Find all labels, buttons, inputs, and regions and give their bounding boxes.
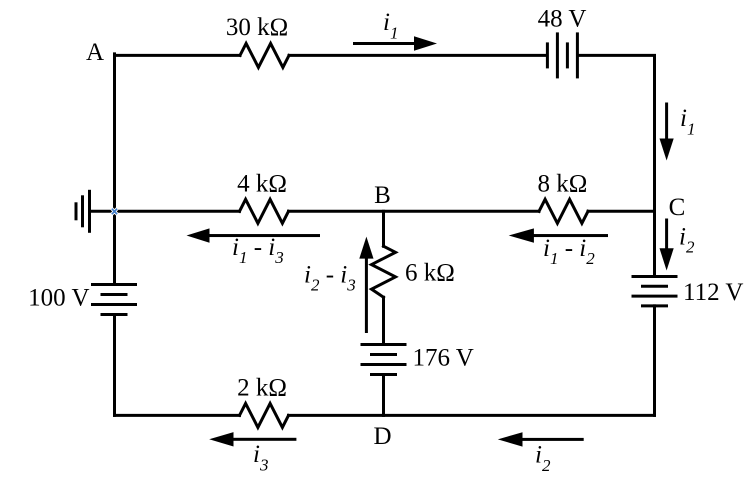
svg-text:48 V: 48 V [538,6,587,33]
svg-text:176 V: 176 V [413,345,474,372]
battery 48V plate tall right [576,34,579,77]
wire: right side from C down to 112V battery [653,211,656,274]
wire: top from 30k to 48V battery [289,54,546,57]
svg-text:i1: i1 [680,105,695,139]
svg-text:8 kΩ: 8 kΩ [537,171,587,198]
svg-text:30 kΩ: 30 kΩ [226,14,288,41]
wire: right side from 112V battery to bottom-right corner [653,306,656,416]
svg-text:i3: i3 [253,441,268,475]
wire: bottom from left corner to 2k resistor [115,414,240,417]
battery 176V wide plate 1 [362,343,405,346]
ground stub wire [90,210,115,213]
wire: top from A to 30k resistor [115,54,241,57]
svg-text:i2 - i3: i2 - i3 [304,261,356,294]
wire: branch from 176V battery to node D [382,375,385,416]
svg-text:D: D [373,423,391,450]
wire: top from 48V battery to top-right corner and down to node C [579,55,655,275]
battery 112V wide plate 1 [633,275,676,278]
battery 112V short plate 2 [643,285,667,288]
battery 48V plate short left [546,44,549,67]
resistor R 6k vertical zigzag [372,246,396,297]
svg-text:i1: i1 [383,9,398,43]
ground bar tall [88,191,91,231]
wire: branch from 6k resistor to 176V battery [382,297,385,343]
svg-text:112 V: 112 V [683,279,743,306]
wire: left side from 100V battery down to bottom-left corner [113,315,116,416]
battery 100V wide plate 3 [93,303,136,306]
svg-text:B: B [374,182,391,209]
wire: branch from node B down to 6k resistor [382,211,385,246]
wire: bottom from 2k through node D to bottom-right corner [289,414,655,417]
battery 100V short plate 2 [102,293,126,296]
current arrow i1 top (rightward) [353,36,437,50]
wire: middle from 8k to node C [588,210,655,213]
current arrow i3 bottom (leftward) [209,432,296,446]
wire: middle from ground junction to 4k resistor [115,210,240,213]
resistor R 30k zigzag [240,43,289,67]
current arrow i1-i2 (leftward) [509,228,608,242]
svg-text:C: C [669,194,686,221]
battery 48V plate tall [556,34,559,77]
current arrow i2-i3 (upward) [359,237,373,333]
ground bar middle [81,197,84,226]
svg-text:100 V: 100 V [28,285,89,312]
current arrow i1 right (downward) [660,103,674,161]
battery 100V wide plate 1 [93,283,136,286]
battery 100V short plate 4 [102,313,126,316]
current arrow i2 bottom (leftward) [498,432,584,446]
svg-text:i1 - i2: i1 - i2 [543,235,595,268]
svg-text:2 kΩ: 2 kΩ [237,375,287,402]
battery 112V short plate 4 [643,304,667,307]
wire: middle from 4k to node B to 8k resistor [289,210,540,213]
svg-text:4 kΩ: 4 kΩ [237,171,287,198]
current arrow i1-i3 (leftward) [187,228,321,242]
wire: left side from A down to 100V battery [113,54,116,283]
svg-text:A: A [86,39,104,66]
current arrow i2 right (downward) [660,219,674,271]
ground bar short [75,204,78,219]
resistor R 8k zigzag [539,199,588,223]
resistor R 2k zigzag [240,403,289,427]
svg-text:i2: i2 [535,441,551,475]
svg-text:i1 - i3: i1 - i3 [232,234,284,267]
battery 176V wide plate 3 [362,363,405,366]
svg-text:6 kΩ: 6 kΩ [405,260,455,287]
battery 112V wide plate 3 [633,295,676,298]
resistor R 4k zigzag [240,199,289,223]
node junction marker (blue) at ground/left-wire crossing [112,209,117,215]
svg-text:i2: i2 [679,224,695,257]
battery 176V short plate 2 [372,353,396,356]
battery 176V short plate 4 [372,373,396,376]
battery 48V plate short right [566,44,569,67]
